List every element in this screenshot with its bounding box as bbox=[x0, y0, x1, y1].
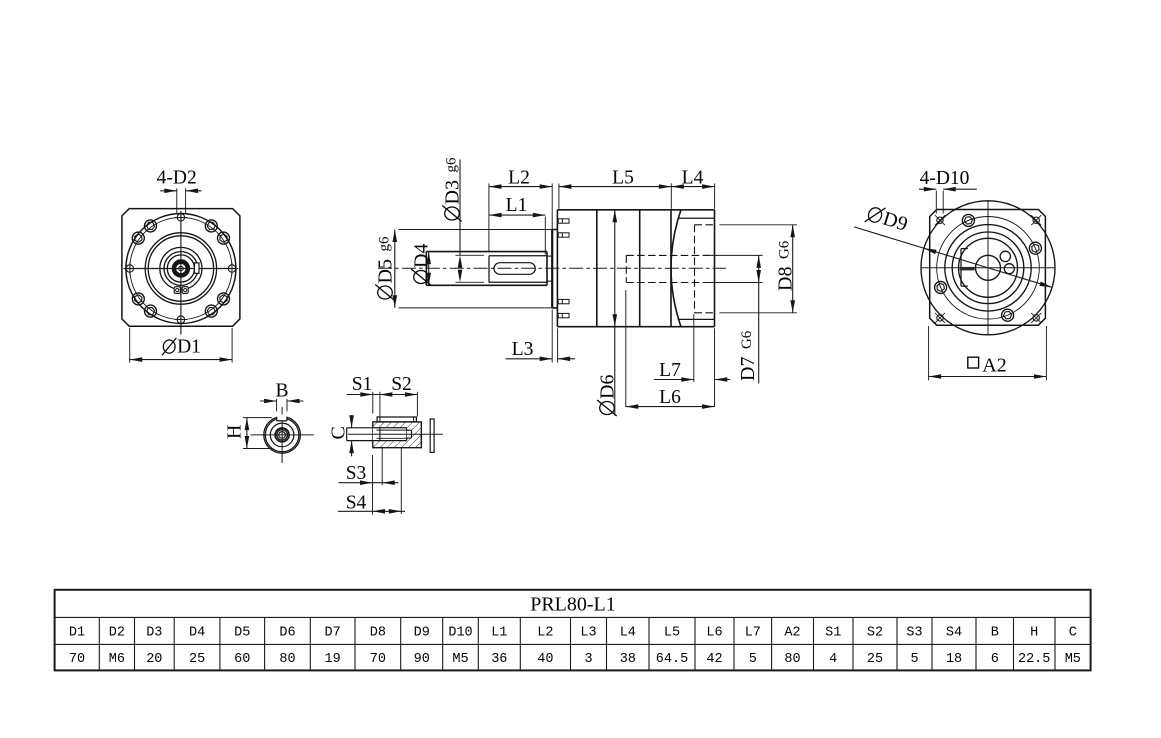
svg-text:80: 80 bbox=[279, 652, 295, 667]
svg-text:4-D2: 4-D2 bbox=[157, 168, 197, 189]
front screw 6 bbox=[145, 305, 157, 317]
svg-text:A2: A2 bbox=[784, 626, 800, 641]
svg-text:70: 70 bbox=[69, 652, 85, 667]
shaft end chamfer circle bbox=[265, 418, 299, 452]
svg-text:L3: L3 bbox=[512, 339, 534, 360]
front hub circle R13.6 bbox=[167, 255, 194, 282]
dimension D3 label bbox=[442, 157, 464, 221]
dimension D9 line bbox=[854, 227, 1052, 288]
rear screw 3 bbox=[935, 281, 947, 293]
bushing centerline bbox=[348, 433, 443, 435]
rear circle R36 bbox=[952, 232, 1024, 304]
svg-text:5: 5 bbox=[910, 652, 918, 667]
motor shaft stub bbox=[347, 427, 373, 429]
dimension D5 label bbox=[375, 236, 397, 300]
svg-text:H: H bbox=[224, 425, 246, 439]
bushing body hatched bbox=[373, 422, 422, 448]
svg-text:19: 19 bbox=[324, 652, 340, 667]
front shaft circle R8.4 bbox=[172, 260, 189, 277]
rear circle R29.5 bbox=[959, 238, 1018, 297]
dimension A2 label bbox=[968, 357, 979, 368]
svg-text:D7: D7 bbox=[324, 626, 340, 641]
front circlip ear right bbox=[182, 287, 188, 294]
front screw 8 bbox=[218, 293, 230, 305]
rear bolt circle bbox=[937, 216, 1040, 319]
dimension D3 lines bbox=[459, 160, 461, 256]
shaft key section box bbox=[489, 255, 547, 257]
motor shaft end face bbox=[379, 428, 381, 441]
svg-text:5: 5 bbox=[749, 652, 757, 667]
dimension D9 label bbox=[864, 203, 910, 236]
svg-text:4-D10: 4-D10 bbox=[920, 168, 970, 189]
svg-text:D1: D1 bbox=[69, 626, 85, 641]
dimension D1 lines bbox=[130, 359, 232, 361]
front pilot circle B bbox=[148, 236, 213, 301]
front screw 3 bbox=[145, 220, 157, 232]
front mount hole bottom bbox=[177, 316, 184, 323]
output shaft outline bbox=[426, 251, 547, 253]
dimension S4 lines bbox=[338, 510, 405, 512]
svg-text:22.5: 22.5 bbox=[1018, 652, 1050, 667]
hidden bore D7 bbox=[625, 255, 627, 282]
dimension L3 lines bbox=[506, 358, 553, 360]
svg-text:L6: L6 bbox=[659, 387, 681, 408]
body joint line 2 bbox=[639, 210, 641, 327]
svg-text:D5 g6: D5 g6 bbox=[375, 236, 397, 283]
svg-text:H: H bbox=[1030, 626, 1038, 641]
rear corner hole D10 2 bbox=[1033, 217, 1039, 223]
shaft end circle R11.8 bbox=[270, 423, 294, 447]
shaft neck stubs bbox=[547, 255, 552, 257]
dimension D7 label bbox=[737, 330, 759, 381]
svg-text:S1: S1 bbox=[825, 626, 841, 641]
front mount hole left bbox=[126, 265, 133, 272]
dimension L6 lines bbox=[626, 406, 715, 408]
svg-text:S4: S4 bbox=[346, 493, 367, 514]
front hub circle R21 bbox=[160, 247, 202, 289]
dimension 4-D10 lines bbox=[919, 188, 936, 190]
front flange square outline bbox=[122, 209, 240, 327]
rear screw 1 bbox=[1029, 242, 1041, 254]
shaft end circle R7 bbox=[275, 428, 289, 442]
svg-text:D5: D5 bbox=[234, 626, 250, 641]
dimension A2 lines bbox=[929, 376, 1047, 378]
rear flange square outline bbox=[930, 210, 1046, 326]
svg-text:20: 20 bbox=[146, 652, 162, 667]
svg-text:L1: L1 bbox=[506, 195, 528, 216]
svg-text:M5: M5 bbox=[1065, 652, 1081, 667]
bore shoulder lines bbox=[678, 217, 715, 219]
svg-text:S4: S4 bbox=[946, 626, 962, 641]
rear view centerline horizontal bbox=[921, 267, 1056, 269]
svg-text:L5: L5 bbox=[664, 626, 680, 641]
svg-text:D7 G6: D7 G6 bbox=[737, 330, 759, 381]
data table bbox=[55, 590, 1091, 671]
svg-text:25: 25 bbox=[189, 652, 205, 667]
bushing bore inner lines bbox=[377, 429, 407, 431]
front shaft bore circle bbox=[176, 263, 187, 274]
front flange outer circle bbox=[126, 214, 236, 324]
front mount hole top bbox=[177, 214, 184, 221]
flange pin bottom 2 bbox=[558, 313, 569, 317]
svg-text:3: 3 bbox=[584, 652, 592, 667]
gearbox body outline bbox=[557, 209, 714, 211]
dimension D8 label bbox=[775, 240, 797, 291]
front screw 4 bbox=[132, 232, 144, 244]
rear circle R43 bbox=[945, 225, 1031, 311]
svg-text:B: B bbox=[991, 626, 999, 641]
dimension L1 lines bbox=[489, 214, 545, 216]
rear bore circle bbox=[976, 255, 1001, 280]
flange pin top 2 bbox=[558, 233, 569, 237]
svg-text:L7: L7 bbox=[745, 626, 761, 641]
svg-text:D9: D9 bbox=[880, 208, 910, 236]
svg-text:D3: D3 bbox=[146, 626, 162, 641]
dimension H label bbox=[224, 425, 246, 439]
front center circle bbox=[179, 266, 184, 271]
dimension D6 label bbox=[597, 375, 619, 416]
flange pin bottom 1 bbox=[558, 299, 569, 303]
rear key section bar bbox=[960, 267, 975, 271]
bushing key strip bbox=[377, 417, 416, 422]
svg-text:M5: M5 bbox=[452, 652, 468, 667]
svg-text:PRL80-L1: PRL80-L1 bbox=[530, 594, 616, 616]
dimension D4 lines bbox=[428, 252, 430, 286]
body joint line 1 bbox=[596, 210, 598, 327]
svg-text:90: 90 bbox=[414, 652, 430, 667]
dimension L4 lines bbox=[671, 186, 714, 188]
svg-text:M6: M6 bbox=[109, 652, 125, 667]
svg-text:L2: L2 bbox=[537, 626, 553, 641]
svg-text:L7: L7 bbox=[659, 360, 681, 381]
shaft end centerline vertical bbox=[281, 407, 283, 463]
svg-text:D4: D4 bbox=[189, 626, 205, 641]
svg-text:D10: D10 bbox=[448, 626, 472, 641]
bushing bore step bbox=[407, 430, 412, 438]
rear corner hole D10 4 bbox=[1033, 315, 1039, 321]
svg-text:25: 25 bbox=[867, 652, 883, 667]
rear small hole upper bbox=[1000, 251, 1010, 261]
dimension H lines bbox=[246, 418, 248, 449]
svg-text:60: 60 bbox=[234, 652, 250, 667]
collar D5 face bbox=[551, 230, 553, 308]
front hub circle R17 bbox=[164, 252, 198, 286]
front view centerline vertical bbox=[180, 211, 182, 335]
svg-text:S3: S3 bbox=[906, 626, 922, 641]
dimension D5 lines bbox=[394, 230, 396, 308]
svg-text:D1: D1 bbox=[177, 337, 201, 358]
dimension S1 S2 lines bbox=[347, 394, 418, 396]
dimension D1 label bbox=[162, 338, 176, 356]
svg-text:L6: L6 bbox=[706, 626, 722, 641]
svg-text:D2: D2 bbox=[109, 626, 125, 641]
body joint line 3 bbox=[670, 210, 672, 327]
svg-text:4: 4 bbox=[829, 652, 837, 667]
motor flange plate bbox=[430, 419, 434, 452]
svg-text:6: 6 bbox=[991, 652, 999, 667]
front bolt circle bbox=[130, 217, 232, 319]
svg-text:S2: S2 bbox=[391, 374, 412, 395]
svg-text:C: C bbox=[1069, 626, 1077, 641]
rear screw 4 bbox=[1002, 309, 1014, 321]
svg-text:B: B bbox=[275, 380, 288, 401]
rear bore keyway slot bbox=[960, 249, 962, 287]
gearbox flange face bbox=[556, 210, 558, 327]
rear screw 2 bbox=[962, 214, 974, 226]
dimension L7 lines bbox=[654, 379, 694, 381]
dimension D7 lines bbox=[758, 255, 760, 383]
svg-text:D6: D6 bbox=[279, 626, 295, 641]
shaft end centerline horizontal bbox=[251, 434, 314, 436]
svg-text:40: 40 bbox=[537, 652, 553, 667]
front screw 5 bbox=[132, 293, 144, 305]
dimension D4 label bbox=[411, 244, 433, 285]
shaft end outer circle bbox=[264, 417, 301, 454]
front screw 7 bbox=[205, 305, 217, 317]
front shaft ring dark bbox=[174, 262, 188, 276]
front screw 2 bbox=[205, 220, 217, 232]
svg-text:18: 18 bbox=[946, 652, 962, 667]
dimension D8 lines bbox=[792, 225, 794, 313]
dimension C lines bbox=[351, 415, 353, 428]
shaft keyway slot bbox=[494, 263, 535, 275]
svg-text:D9: D9 bbox=[414, 626, 430, 641]
svg-text:S3: S3 bbox=[346, 463, 367, 484]
rear view centerline vertical bbox=[987, 200, 989, 336]
flange pin top 1 bbox=[558, 219, 569, 223]
svg-text:L4: L4 bbox=[682, 167, 704, 188]
dimension L5 lines bbox=[559, 186, 671, 188]
svg-text:36: 36 bbox=[491, 652, 507, 667]
shaft end keyway bbox=[277, 415, 286, 421]
svg-text:L2: L2 bbox=[508, 167, 530, 188]
front view centerline horizontal bbox=[124, 268, 237, 270]
adapter bell curve bbox=[671, 210, 681, 327]
front screw 1 bbox=[218, 232, 230, 244]
rear big circle D9 bbox=[921, 201, 1055, 335]
dimension L2 lines bbox=[489, 186, 552, 188]
svg-text:70: 70 bbox=[370, 652, 386, 667]
dimension B lines bbox=[260, 400, 277, 402]
shaft end circle R5.3 bbox=[277, 430, 288, 441]
svg-text:38: 38 bbox=[620, 652, 636, 667]
dimension C label bbox=[328, 426, 350, 439]
dimension 4-D2 lines bbox=[160, 190, 177, 192]
rear corner hole D10 1 bbox=[937, 217, 943, 223]
hidden bore D8 bbox=[694, 225, 696, 313]
svg-text:64.5: 64.5 bbox=[656, 652, 688, 667]
dimension S3 lines bbox=[339, 482, 399, 484]
svg-text:L4: L4 bbox=[620, 626, 636, 641]
svg-text:D8: D8 bbox=[370, 626, 386, 641]
front mount hole right bbox=[228, 265, 235, 272]
dimension D6 lines bbox=[614, 210, 616, 416]
front pilot circle A bbox=[145, 233, 216, 304]
svg-text:A2: A2 bbox=[982, 355, 1006, 377]
section centerline bbox=[378, 267, 726, 269]
svg-text:C: C bbox=[328, 426, 350, 439]
svg-text:80: 80 bbox=[784, 652, 800, 667]
front hub keyway notch bbox=[195, 263, 200, 273]
rear corner hole D10 3 bbox=[937, 315, 943, 321]
svg-text:42: 42 bbox=[706, 652, 722, 667]
bushing bore bbox=[373, 428, 407, 441]
svg-text:L1: L1 bbox=[491, 626, 507, 641]
rear small hole right bbox=[1004, 264, 1014, 274]
svg-text:L3: L3 bbox=[580, 626, 596, 641]
svg-text:L5: L5 bbox=[612, 167, 634, 188]
svg-text:S2: S2 bbox=[867, 626, 883, 641]
front circlip ear left bbox=[174, 287, 180, 294]
svg-text:S1: S1 bbox=[352, 374, 373, 395]
shaft end bore circle bbox=[279, 432, 286, 439]
